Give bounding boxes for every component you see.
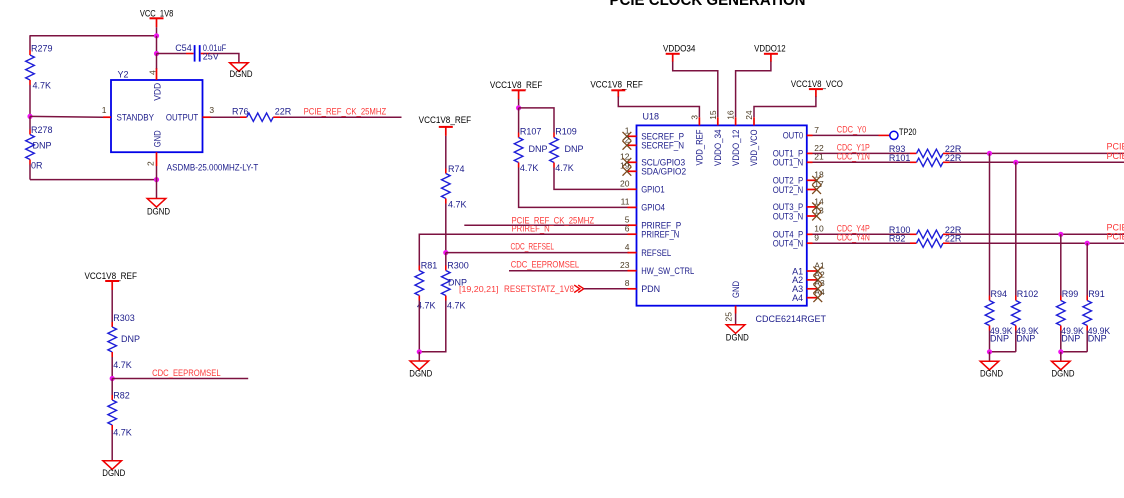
wire bbox=[419, 301, 446, 352]
svg-text:VCC_1V8: VCC_1V8 bbox=[140, 8, 174, 18]
svg-text:23: 23 bbox=[620, 260, 630, 270]
wire bbox=[990, 351, 1016, 353]
net label CDC_Y0 bbox=[837, 124, 867, 134]
resistor R99 bbox=[1057, 289, 1084, 344]
svg-text:U18: U18 bbox=[643, 112, 660, 122]
wire bbox=[418, 352, 420, 361]
svg-text:R82: R82 bbox=[113, 391, 130, 401]
wire bbox=[950, 233, 1124, 235]
pin 20 of U18 (GPIO1) bbox=[620, 179, 665, 195]
wire bbox=[30, 115, 103, 118]
wire bbox=[156, 27, 158, 36]
wire bbox=[584, 288, 629, 290]
svg-text:DGND: DGND bbox=[147, 206, 170, 216]
pin 25 of U18 (GND) bbox=[723, 306, 735, 322]
svg-text:HW_SW_CTRL: HW_SW_CTRL bbox=[641, 266, 694, 276]
wire bbox=[30, 35, 157, 37]
resistor R81 bbox=[415, 261, 437, 311]
svg-text:R278: R278 bbox=[31, 125, 53, 135]
resistor R102 bbox=[1012, 289, 1039, 344]
wire bbox=[111, 430, 113, 461]
node junction bbox=[1058, 349, 1063, 354]
svg-text:R91: R91 bbox=[1088, 289, 1105, 299]
pin A1 of U18 (A1) bbox=[792, 260, 825, 276]
node junction bbox=[27, 114, 32, 119]
resistor R76 bbox=[232, 107, 292, 122]
pin 16 of U18 bbox=[726, 110, 736, 125]
svg-text:16: 16 bbox=[726, 110, 736, 120]
node junction bbox=[417, 349, 422, 354]
wire bbox=[989, 153, 991, 295]
svg-text:GND: GND bbox=[152, 130, 162, 147]
svg-text:DGND: DGND bbox=[726, 333, 749, 343]
svg-text:PCIE_REF_CK_25MHZ: PCIE_REF_CK_25MHZ bbox=[512, 215, 595, 225]
pin 9 of U18 (OUT4_N) bbox=[773, 233, 820, 249]
svg-text:R102: R102 bbox=[1017, 289, 1039, 299]
svg-text:22R: 22R bbox=[945, 153, 962, 163]
node junction bbox=[110, 376, 115, 381]
svg-text:15: 15 bbox=[708, 110, 718, 120]
svg-text:R94: R94 bbox=[991, 289, 1008, 299]
wire bbox=[419, 234, 629, 265]
ground bbox=[1052, 361, 1075, 378]
svg-text:R279: R279 bbox=[31, 43, 53, 53]
svg-text:4.7K: 4.7K bbox=[33, 81, 52, 91]
capacitor C54 bbox=[175, 43, 227, 62]
svg-text:SDA/GPIO2: SDA/GPIO2 bbox=[641, 167, 686, 177]
svg-text:1: 1 bbox=[102, 105, 107, 115]
pin 22 of U18 (OUT1_P) bbox=[773, 143, 824, 159]
svg-text:6: 6 bbox=[625, 224, 630, 234]
pin 13 of U18 (OUT3_N) bbox=[773, 205, 824, 221]
svg-text:DNP: DNP bbox=[33, 141, 52, 151]
svg-text:VDD_VCO: VDD_VCO bbox=[749, 130, 759, 167]
svg-text:VCC1V8_VCO: VCC1V8_VCO bbox=[791, 79, 843, 89]
svg-text:R92: R92 bbox=[889, 234, 906, 244]
oscillator Y2 bbox=[111, 70, 259, 173]
pin 1 of U18 (SECREF_P) bbox=[623, 126, 685, 142]
ground bbox=[102, 461, 125, 478]
svg-text:0R: 0R bbox=[31, 161, 43, 171]
node junction bbox=[154, 177, 159, 182]
wire bbox=[989, 352, 991, 361]
svg-text:OUTPUT: OUTPUT bbox=[166, 112, 199, 122]
svg-text:4.7K: 4.7K bbox=[555, 163, 574, 173]
node junction bbox=[516, 105, 521, 110]
svg-text:OUT0: OUT0 bbox=[783, 131, 804, 141]
wire bbox=[1060, 331, 1062, 352]
pin 19 of U18 (SDA/GPIO2) bbox=[620, 161, 686, 177]
wire bbox=[156, 54, 158, 69]
wire bbox=[418, 301, 420, 352]
svg-text:CDC_Y1N: CDC_Y1N bbox=[837, 152, 870, 162]
svg-text:CDC_Y4N: CDC_Y4N bbox=[837, 233, 870, 243]
svg-text:ASDMB-25.000MHZ-LY-T: ASDMB-25.000MHZ-LY-T bbox=[167, 163, 259, 173]
svg-text:PCIE_CLK4N: PCIE_CLK4N bbox=[1107, 232, 1124, 242]
pin 5 of U18 (PRIREF_P) bbox=[625, 215, 681, 231]
svg-text:TP20: TP20 bbox=[899, 127, 917, 137]
pin name VDDO_34 bbox=[713, 130, 723, 167]
svg-text:24: 24 bbox=[744, 110, 754, 120]
resistor R94 bbox=[985, 289, 1012, 344]
resistor R279 bbox=[26, 43, 53, 90]
ground bbox=[980, 361, 1003, 378]
node junction bbox=[1085, 241, 1090, 246]
svg-text:DGND: DGND bbox=[409, 369, 432, 379]
ground bbox=[726, 325, 749, 343]
power VCC1V8_VCO bbox=[791, 79, 843, 97]
svg-text:OUT2_N: OUT2_N bbox=[773, 185, 804, 195]
pin 3 of Y2 bbox=[203, 105, 215, 117]
net label PCIE_REF_CK_25MHZ bbox=[304, 106, 387, 116]
svg-text:11: 11 bbox=[621, 197, 630, 207]
pin name GND bbox=[731, 281, 741, 298]
svg-text:2: 2 bbox=[145, 161, 155, 166]
svg-text:R74: R74 bbox=[448, 164, 465, 174]
resistor R300 bbox=[441, 253, 468, 311]
pin 4 of U18 (REFSEL) bbox=[625, 242, 671, 258]
wire bbox=[950, 161, 1124, 163]
wire bbox=[813, 134, 879, 136]
wire bbox=[111, 290, 113, 322]
pin 10 of U18 (OUT4_P) bbox=[773, 224, 824, 240]
svg-text:GPIO1: GPIO1 bbox=[641, 185, 665, 195]
svg-text:VDDO34: VDDO34 bbox=[663, 43, 696, 53]
wire bbox=[1060, 352, 1062, 361]
pin A3 of U18 (A3) bbox=[792, 278, 825, 294]
svg-text:GND: GND bbox=[731, 281, 741, 298]
svg-text:4: 4 bbox=[148, 70, 158, 75]
wire bbox=[1086, 243, 1088, 295]
pin 6 of U18 (PRIREF_N) bbox=[625, 224, 680, 240]
resistor R92 bbox=[889, 234, 962, 248]
wire bbox=[554, 168, 628, 190]
svg-text:VCC1V8_REF: VCC1V8_REF bbox=[590, 80, 643, 90]
svg-text:DGND: DGND bbox=[102, 468, 125, 478]
wire bbox=[735, 314, 737, 325]
svg-text:DNP: DNP bbox=[121, 334, 140, 344]
pin name VDDO_12 bbox=[731, 130, 741, 167]
svg-text:R76: R76 bbox=[232, 107, 249, 117]
pin 11 of U18 (GPIO4) bbox=[621, 197, 665, 213]
net label CDC_Y4N bbox=[837, 233, 870, 243]
svg-text:A4: A4 bbox=[792, 293, 803, 303]
svg-text:STANDBY: STANDBY bbox=[117, 112, 155, 122]
net label CDC_Y4P bbox=[837, 224, 870, 234]
wire bbox=[509, 270, 629, 272]
svg-text:VDDO_12: VDDO_12 bbox=[731, 130, 741, 167]
offpage connector bbox=[574, 285, 584, 292]
svg-text:C54: C54 bbox=[175, 43, 192, 53]
svg-text:4.7K: 4.7K bbox=[113, 428, 132, 438]
wire bbox=[445, 204, 447, 253]
svg-text:VCC1V8_REF: VCC1V8_REF bbox=[419, 115, 472, 125]
svg-text:CDC_EEPROMSEL: CDC_EEPROMSEL bbox=[152, 368, 221, 378]
svg-text:DNP: DNP bbox=[1016, 334, 1035, 344]
wire bbox=[30, 179, 157, 181]
ground bbox=[147, 199, 170, 217]
wire bbox=[464, 224, 629, 226]
svg-text:CDC_REFSEL: CDC_REFSEL bbox=[511, 242, 555, 252]
svg-text:R109: R109 bbox=[555, 126, 577, 136]
wire bbox=[211, 54, 239, 63]
pin 3 of U18 bbox=[689, 115, 699, 126]
test point TP20 bbox=[879, 127, 917, 139]
node junction bbox=[987, 151, 992, 156]
svg-text:4.7K: 4.7K bbox=[113, 360, 132, 370]
svg-text:R107: R107 bbox=[520, 126, 542, 136]
svg-text:CDC_EEPROMSEL: CDC_EEPROMSEL bbox=[511, 259, 580, 269]
resistor R101 bbox=[889, 153, 962, 167]
power VCC1V8_REF bbox=[490, 80, 543, 99]
power VCC_1V8 bbox=[140, 8, 174, 27]
pin 1 of Y2 bbox=[102, 105, 111, 117]
svg-text:R101: R101 bbox=[889, 153, 911, 163]
pin 21 of U18 (OUT1_N) bbox=[773, 152, 824, 168]
pin 17 of U18 (OUT2_N) bbox=[773, 179, 824, 195]
pin 8 of U18 (PDN) bbox=[625, 278, 660, 294]
pin 23 of U18 (HW_SW_CTRL) bbox=[620, 260, 694, 276]
svg-text:PDN: PDN bbox=[641, 284, 660, 294]
svg-text:VCC1V8_REF: VCC1V8_REF bbox=[84, 271, 137, 281]
svg-text:VDDO_34: VDDO_34 bbox=[713, 130, 723, 167]
wire bbox=[156, 166, 158, 199]
svg-text:R99: R99 bbox=[1062, 289, 1079, 299]
pin 24 of U18 bbox=[744, 110, 754, 125]
title PCIE CLOCK GENERATION bbox=[610, 0, 806, 9]
wire bbox=[813, 242, 911, 244]
svg-text:VDDO12: VDDO12 bbox=[754, 43, 786, 53]
svg-text:4.7K: 4.7K bbox=[448, 200, 467, 210]
resistor R82 bbox=[108, 379, 132, 438]
net label CDC_Y1P bbox=[837, 143, 870, 153]
pin 4 of Y2 bbox=[148, 68, 158, 80]
wire bbox=[156, 36, 158, 54]
net label CDC_EEPROMSEL bbox=[152, 368, 221, 378]
net label PCIE (clipped) bbox=[1107, 151, 1124, 161]
wire bbox=[1060, 234, 1062, 295]
svg-text:3: 3 bbox=[689, 115, 699, 120]
svg-text:DGND: DGND bbox=[980, 369, 1003, 379]
pin 14 of U18 (OUT3_P) bbox=[773, 196, 824, 212]
svg-text:DGND: DGND bbox=[230, 69, 253, 79]
pin 2 of U18 (SECREF_N) bbox=[623, 135, 685, 151]
svg-text:4.7K: 4.7K bbox=[447, 301, 466, 311]
svg-text:CDC_Y0: CDC_Y0 bbox=[837, 124, 867, 134]
pin 18 of U18 (OUT2_P) bbox=[773, 170, 824, 186]
power VCC1V8_REF bbox=[590, 80, 643, 98]
resistor R93 bbox=[889, 144, 962, 158]
node junction bbox=[154, 33, 159, 38]
svg-text:22R: 22R bbox=[275, 107, 292, 117]
svg-text:20: 20 bbox=[620, 179, 630, 189]
op-amp U18 body bbox=[637, 112, 827, 325]
net label [19,20,21] RESETSTATZ_1V8 bbox=[459, 284, 574, 294]
wire bbox=[112, 378, 248, 380]
svg-text:PCIE_CLK1N: PCIE_CLK1N bbox=[1107, 151, 1124, 161]
svg-text:PRIREF_N: PRIREF_N bbox=[641, 230, 679, 240]
pin name VDD_VCO bbox=[749, 130, 759, 167]
ground bbox=[230, 63, 253, 79]
svg-text:DNP: DNP bbox=[1088, 334, 1107, 344]
svg-text:7: 7 bbox=[814, 125, 819, 135]
power VDDO34 bbox=[663, 43, 696, 62]
net label PRIREF_N bbox=[512, 224, 550, 234]
svg-text:8: 8 bbox=[625, 278, 630, 288]
pin 12 of U18 (SCL/GPIO3) bbox=[620, 152, 685, 168]
svg-text:DNP: DNP bbox=[990, 334, 1009, 344]
wire bbox=[736, 62, 771, 118]
svg-text:DNP: DNP bbox=[565, 144, 584, 154]
svg-text:VDD: VDD bbox=[152, 82, 162, 100]
wire bbox=[1061, 351, 1087, 353]
wire bbox=[29, 35, 31, 50]
resistor R303 bbox=[108, 313, 140, 370]
net label PCIE (clipped) bbox=[1107, 223, 1124, 233]
wire bbox=[211, 116, 241, 118]
wire bbox=[518, 99, 520, 108]
wire bbox=[813, 152, 911, 154]
wire bbox=[446, 252, 629, 254]
wire bbox=[1086, 331, 1088, 352]
svg-text:VDD_REF: VDD_REF bbox=[695, 129, 705, 165]
pin 2 of Y2 bbox=[145, 152, 156, 166]
svg-text:OUT1_N: OUT1_N bbox=[773, 158, 804, 168]
net label PCIE (clipped) bbox=[1107, 142, 1124, 152]
svg-text:Y2: Y2 bbox=[118, 70, 129, 80]
wire bbox=[618, 97, 699, 118]
wire bbox=[445, 136, 447, 169]
ground bbox=[409, 361, 432, 379]
node junction bbox=[1058, 232, 1063, 237]
net label CDC_Y1N bbox=[837, 152, 870, 162]
svg-text:4.7K: 4.7K bbox=[520, 163, 539, 173]
net label PCIE_REF_CK_25MHZ bbox=[512, 215, 595, 225]
net label CDC_REFSEL bbox=[511, 242, 555, 252]
svg-text:REFSEL: REFSEL bbox=[641, 248, 671, 258]
svg-text:PCIE CLOCK GENERATION: PCIE CLOCK GENERATION bbox=[610, 0, 806, 9]
node junction bbox=[1013, 160, 1018, 165]
svg-text:DGND: DGND bbox=[1052, 369, 1075, 379]
wire bbox=[950, 152, 1124, 154]
pin A4 of U18 (A4) bbox=[792, 287, 825, 303]
power VCC1V8_REF bbox=[419, 115, 472, 136]
wire bbox=[280, 116, 402, 118]
wire bbox=[754, 97, 816, 118]
resistor R107 bbox=[514, 108, 547, 173]
svg-text:PCIE_REF_CK_25MHZ: PCIE_REF_CK_25MHZ bbox=[304, 106, 387, 116]
wire bbox=[989, 331, 991, 352]
svg-text:OUT4_N: OUT4_N bbox=[773, 239, 804, 249]
wire bbox=[950, 242, 1124, 244]
pin 7 of U18 (OUT0) bbox=[783, 125, 820, 141]
wire bbox=[813, 233, 911, 235]
svg-text:SECREF_N: SECREF_N bbox=[641, 141, 684, 151]
svg-text:DNP: DNP bbox=[529, 144, 548, 154]
wire bbox=[1015, 331, 1017, 352]
svg-text:VCC1V8_REF: VCC1V8_REF bbox=[490, 80, 543, 90]
svg-text:GPIO4: GPIO4 bbox=[641, 203, 665, 213]
svg-text:CDCE6214RGET: CDCE6214RGET bbox=[756, 314, 827, 324]
node junction bbox=[987, 349, 992, 354]
pin 15 of U18 bbox=[708, 110, 718, 125]
wire bbox=[111, 357, 113, 379]
resistor R278 bbox=[26, 116, 53, 179]
power VDDO12 bbox=[754, 43, 786, 62]
svg-text:3: 3 bbox=[209, 105, 214, 115]
resistor R74 bbox=[441, 164, 466, 210]
svg-text:22R: 22R bbox=[945, 234, 962, 244]
wire bbox=[1015, 162, 1017, 295]
wire bbox=[519, 168, 628, 208]
svg-text:DNP: DNP bbox=[1061, 334, 1080, 344]
node junction bbox=[154, 51, 159, 56]
svg-text:DNP: DNP bbox=[448, 278, 467, 288]
net label PCIE (clipped) bbox=[1107, 232, 1124, 242]
pin name VDD_REF bbox=[695, 129, 705, 165]
node junction bbox=[443, 250, 448, 255]
wire bbox=[519, 108, 554, 133]
wire bbox=[673, 62, 718, 118]
wire bbox=[813, 161, 911, 163]
wire bbox=[29, 85, 31, 116]
pin A2 of U18 (A2) bbox=[792, 269, 825, 285]
svg-text:R303: R303 bbox=[113, 313, 135, 323]
resistor R91 bbox=[1083, 289, 1110, 344]
resistor R100 bbox=[889, 225, 962, 239]
net label CDC_EEPROMSEL bbox=[511, 259, 580, 269]
svg-text:R81: R81 bbox=[421, 261, 438, 271]
wire bbox=[157, 53, 187, 55]
svg-text:OUT3_N: OUT3_N bbox=[773, 211, 804, 221]
resistor R109 bbox=[550, 126, 584, 173]
power VCC1V8_REF bbox=[84, 271, 137, 290]
svg-text:4: 4 bbox=[625, 242, 630, 252]
svg-text:25: 25 bbox=[723, 312, 733, 322]
svg-text:R300: R300 bbox=[447, 261, 469, 271]
svg-text:RESETSTATZ_1V8: RESETSTATZ_1V8 bbox=[504, 284, 574, 294]
